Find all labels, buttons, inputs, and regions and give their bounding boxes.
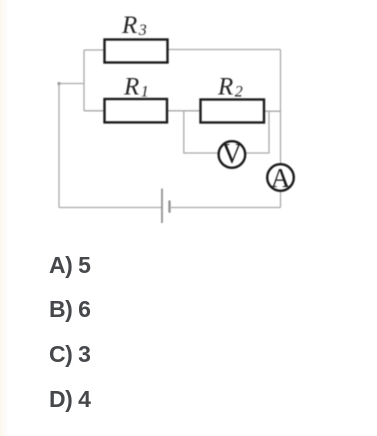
label R1 xyxy=(123,74,149,101)
wire: voltmeter branch right (down from R2 right stub, left to voltmeter) xyxy=(246,111,269,153)
resistor R2 xyxy=(201,100,265,123)
battery B1: long plate xyxy=(161,189,163,224)
wire: junction horizontal to outer left vertical xyxy=(59,83,84,85)
wire: left inner vertical between R3 and R1 left terminals xyxy=(83,50,85,111)
wire: right vertical from top wire down to ammeter xyxy=(280,50,282,165)
battery B1: short plate xyxy=(168,201,170,213)
label R3 xyxy=(121,12,147,39)
wire: stub to R1 left terminal xyxy=(84,110,105,112)
wire: top wire from R3 right terminal to right vertical xyxy=(168,49,281,51)
resistor R1 xyxy=(105,99,168,122)
svg-text:A: A xyxy=(271,163,291,193)
label R2 xyxy=(217,74,243,101)
wire: stub from R2 right terminal to right vertical xyxy=(264,110,281,112)
wire: bottom wire left of battery xyxy=(59,207,162,209)
ammeter A xyxy=(267,163,294,193)
svg-text:R2: R2 xyxy=(217,74,243,101)
svg-text:V: V xyxy=(222,139,242,170)
node: junction of battery branch with parallel block xyxy=(58,82,61,85)
wire: stub to R3 left terminal xyxy=(84,49,105,51)
svg-text:R1: R1 xyxy=(123,74,149,101)
svg-text:R3: R3 xyxy=(121,12,147,39)
voltmeter V xyxy=(219,139,246,170)
wire: connector from R1 right terminal to R2 left terminal xyxy=(167,110,201,112)
wire: outer left vertical down to battery xyxy=(58,84,60,208)
wire: bottom wire right of battery xyxy=(170,207,281,209)
resistor R3 xyxy=(105,40,168,63)
wire: voltmeter branch left (down from R1-R2 connector, right to voltmeter) xyxy=(184,111,218,153)
wire: right vertical below ammeter xyxy=(280,191,282,208)
